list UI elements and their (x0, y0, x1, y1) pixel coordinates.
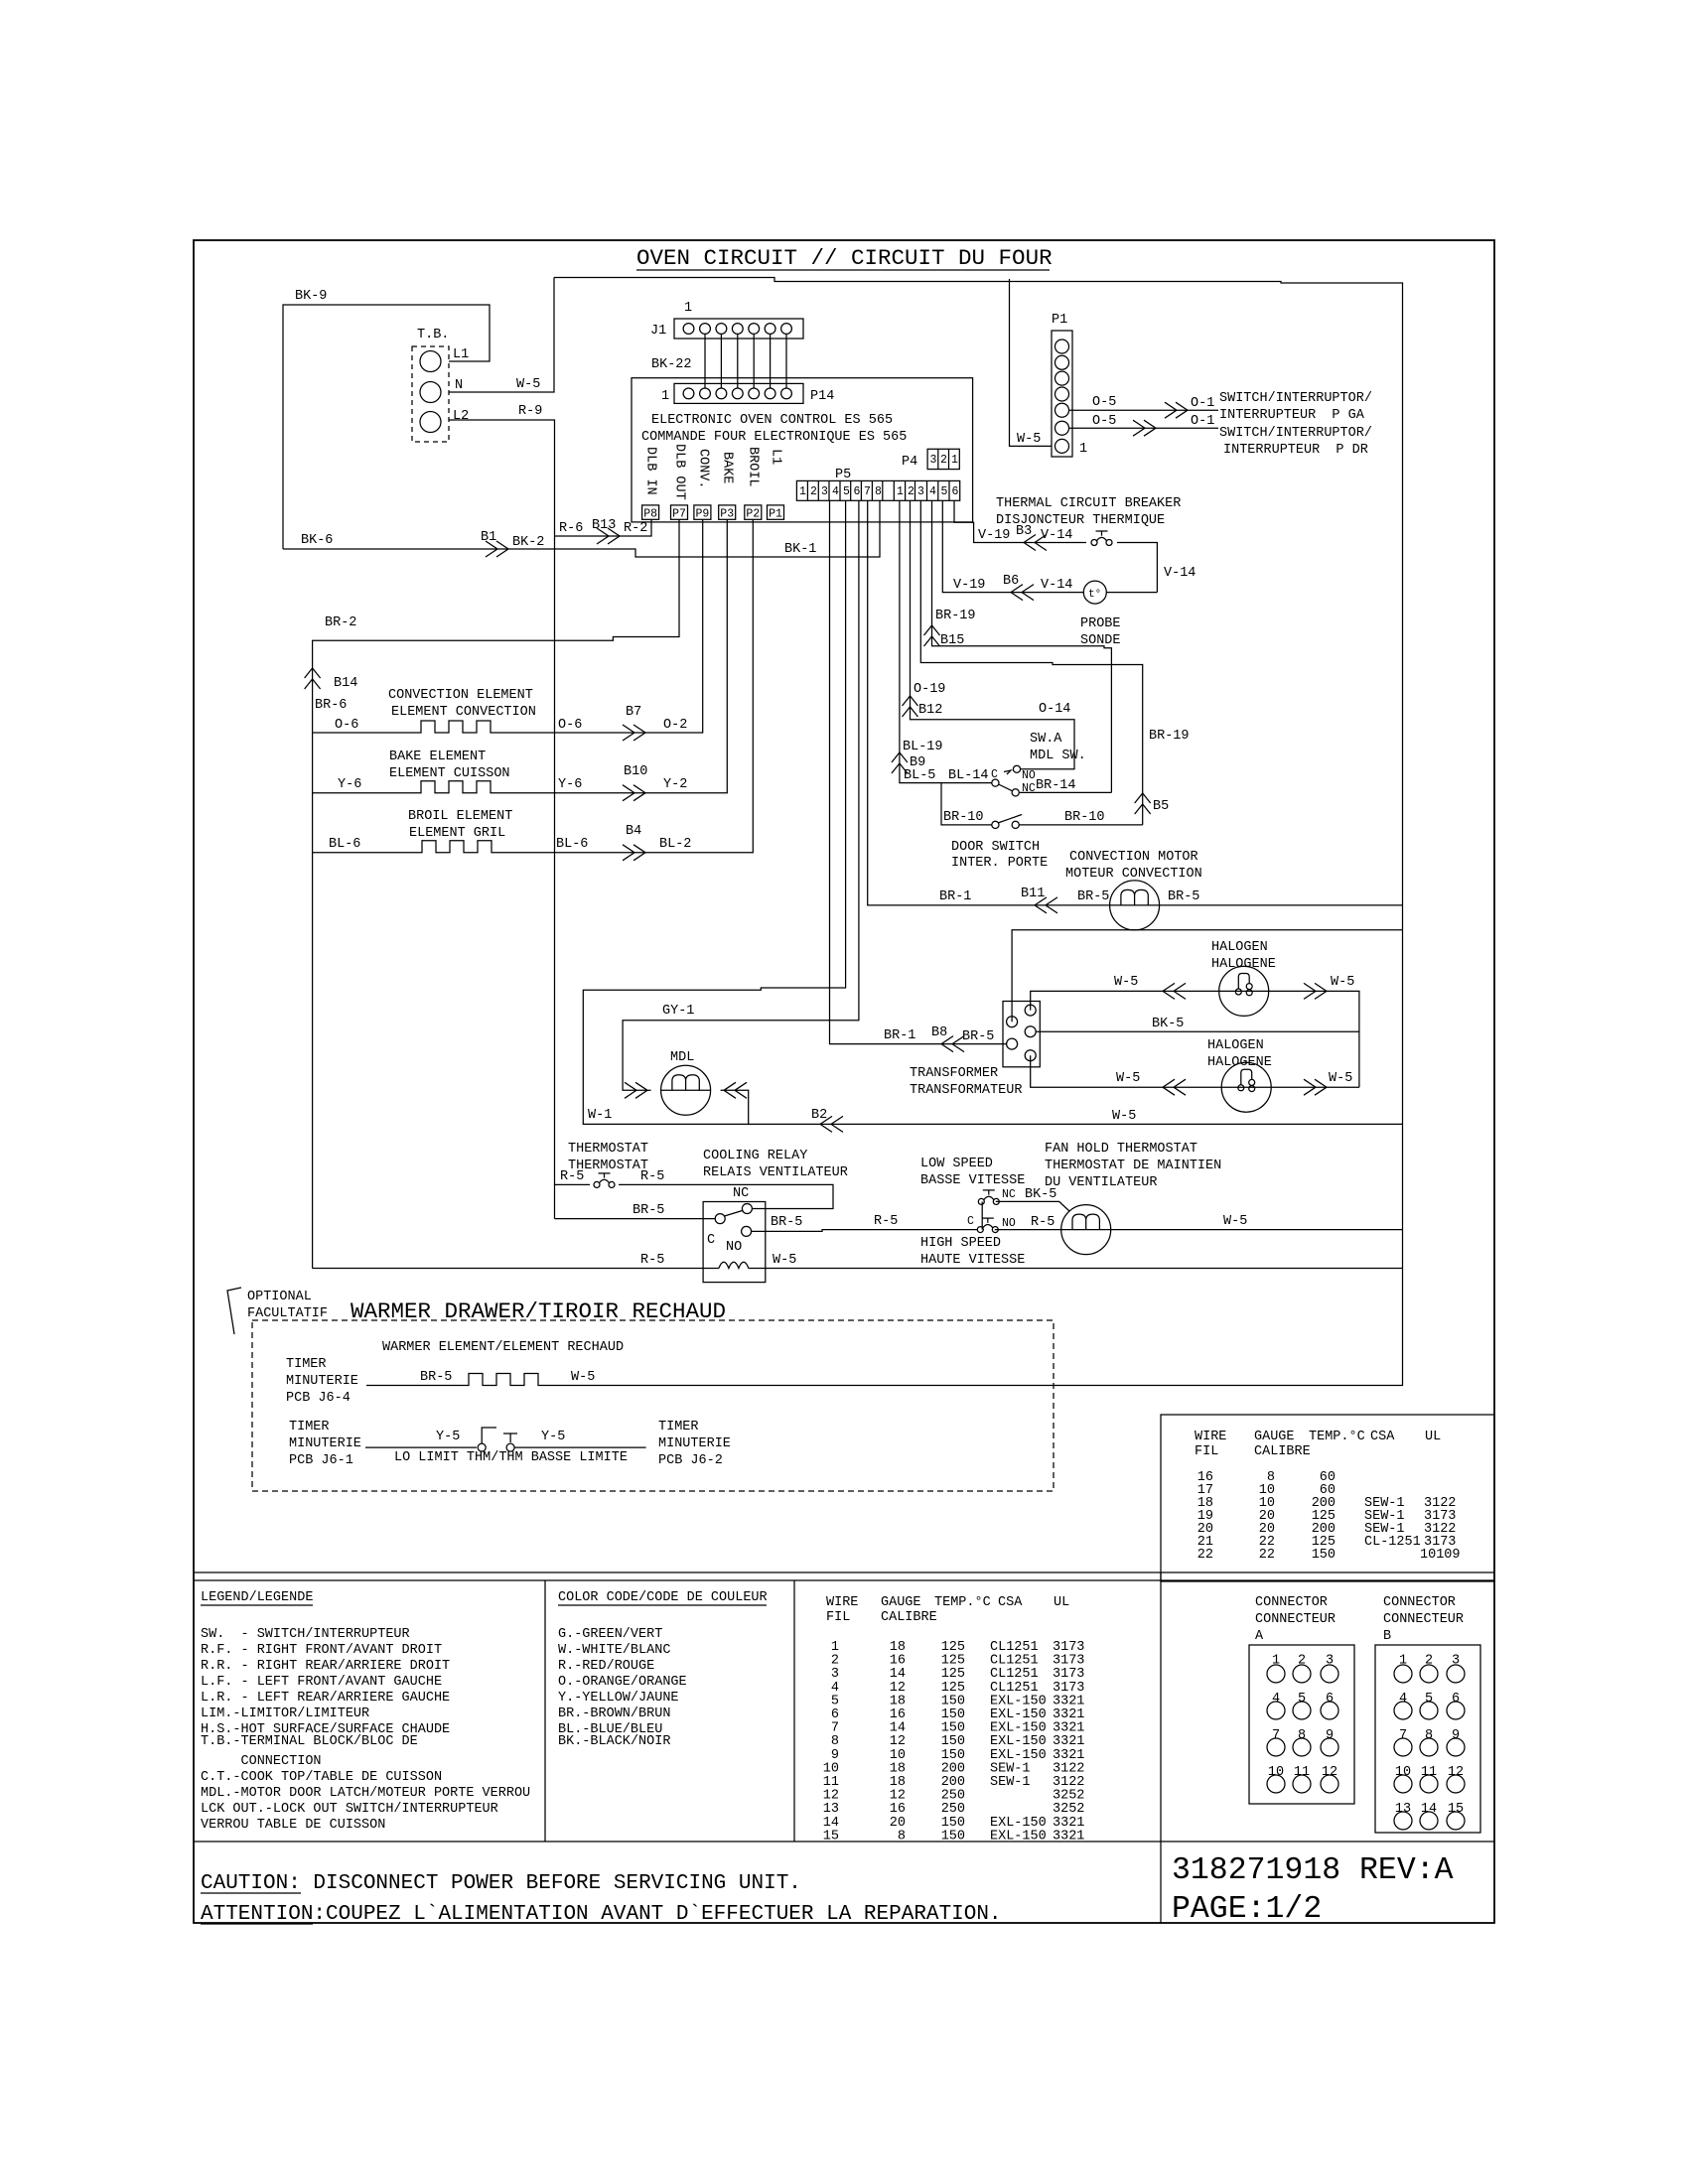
svg-text:NC: NC (733, 1186, 749, 1201)
wire BK-9 top (283, 305, 490, 549)
svg-text:ELEMENT GRIL: ELEMENT GRIL (409, 826, 505, 841)
svg-text:3: 3 (1452, 1654, 1460, 1669)
svg-text:W-5: W-5 (1017, 432, 1041, 447)
svg-text:P9: P9 (696, 508, 710, 521)
svg-text:4: 4 (1399, 1692, 1407, 1706)
svg-text:PROBE: PROBE (1080, 616, 1121, 631)
svg-text:L.F. - LEFT FRONT/AVANT GAUCHE: L.F. - LEFT FRONT/AVANT GAUCHE (201, 1675, 442, 1690)
svg-text:L1: L1 (453, 347, 469, 362)
svg-text:DOOR SWITCH: DOOR SWITCH (951, 840, 1040, 855)
svg-text:2: 2 (1425, 1654, 1433, 1669)
svg-text:8: 8 (890, 1829, 906, 1843)
svg-text:FACULTATIF: FACULTATIF (247, 1306, 328, 1321)
svg-text:BR-6: BR-6 (315, 698, 347, 713)
svg-text:W-5: W-5 (571, 1370, 595, 1385)
svg-text:GAUGE: GAUGE (881, 1595, 921, 1610)
svg-text:DLB OUT: DLB OUT (672, 444, 687, 500)
svg-text:INTERRUPTEUR P DR: INTERRUPTEUR P DR (1223, 443, 1368, 458)
probe circle (1083, 581, 1106, 604)
connector A pins (1268, 1654, 1337, 1780)
svg-text:O-6: O-6 (335, 718, 358, 733)
svg-text:6: 6 (1452, 1692, 1460, 1706)
svg-text:7: 7 (1399, 1728, 1407, 1743)
svg-text:7: 7 (864, 485, 871, 498)
wire O-5/O-1 switch P GA (1069, 409, 1219, 411)
svg-text:B12: B12 (918, 703, 942, 718)
svg-text:CONV.: CONV. (696, 449, 711, 489)
page border frame (194, 240, 1494, 1923)
svg-text:10109: 10109 (1420, 1548, 1461, 1563)
svg-text:THERMOSTAT: THERMOSTAT (568, 1142, 648, 1157)
svg-text:NO: NO (1022, 769, 1036, 782)
svg-text:BR-14: BR-14 (1036, 778, 1076, 793)
svg-text:R-5: R-5 (640, 1253, 664, 1268)
svg-text:CALIBRE: CALIBRE (881, 1610, 937, 1625)
wire R-9 from L2 (449, 420, 555, 1219)
svg-text:TEMP.°C: TEMP.°C (934, 1595, 991, 1610)
svg-text:3321: 3321 (1053, 1829, 1084, 1843)
svg-text:BR-5: BR-5 (1077, 889, 1109, 904)
svg-text:5: 5 (843, 485, 850, 498)
wire W-5 from N (449, 278, 554, 393)
svg-text:THERMAL CIRCUIT BREAKER: THERMAL CIRCUIT BREAKER (996, 496, 1181, 511)
wire GY-1 from P5-6L (623, 500, 859, 1090)
svg-text:PCB J6-2: PCB J6-2 (658, 1453, 723, 1468)
svg-text:HAUTE VITESSE: HAUTE VITESSE (920, 1253, 1025, 1268)
connector B label (1383, 1595, 1464, 1644)
svg-text:MDL.-MOTOR DOOR LATCH/MOTEUR P: MDL.-MOTOR DOOR LATCH/MOTEUR PORTE VERRO… (201, 1786, 530, 1801)
svg-text:BR-5: BR-5 (771, 1215, 802, 1230)
svg-text:PCB J6-1: PCB J6-1 (289, 1453, 353, 1468)
svg-text:BL-2: BL-2 (659, 837, 691, 852)
svg-text:L.R. - LEFT REAR/ARRIERE GAUCH: L.R. - LEFT REAR/ARRIERE GAUCHE (201, 1691, 450, 1706)
wire BR-14 from NC (1019, 791, 1111, 793)
svg-text:BR-1: BR-1 (884, 1028, 915, 1043)
svg-text:BASSE VITESSE: BASSE VITESSE (920, 1173, 1025, 1188)
wire to transformer top (1012, 930, 1402, 1022)
upper wire gauge table box (1161, 1415, 1494, 1581)
wire V-19/V-14 breaker row from P5-6R (954, 500, 1086, 542)
svg-text:1: 1 (684, 301, 692, 316)
svg-text:R.R. - RIGHT REAR/ARRIERE DROI: R.R. - RIGHT REAR/ARRIERE DROIT (201, 1659, 450, 1674)
svg-text:BR-2: BR-2 (325, 615, 356, 630)
svg-text:TRANSFORMER: TRANSFORMER (910, 1066, 998, 1081)
svg-text:SW. - SWITCH/INTERRUPTEUR: SW. - SWITCH/INTERRUPTEUR (201, 1627, 410, 1642)
svg-text:BL-14: BL-14 (948, 768, 989, 783)
svg-text:P1: P1 (1052, 313, 1067, 328)
svg-text:3: 3 (930, 454, 937, 467)
wire BR-1/B8/BR-5 to transformer (830, 500, 1007, 1043)
svg-text:1: 1 (1399, 1654, 1407, 1669)
svg-text:DLB IN: DLB IN (643, 447, 658, 495)
svg-text:2: 2 (1298, 1654, 1306, 1669)
wire BL-19 / B9 / BL-5 from P5-1R to SW.A C (900, 500, 992, 782)
svg-text:W-5: W-5 (1331, 975, 1354, 990)
svg-text:V-19: V-19 (978, 528, 1010, 543)
low speed NC contact (978, 1190, 999, 1205)
svg-text:MDL: MDL (670, 1050, 694, 1065)
pin box P3 (719, 505, 736, 519)
color / wiretable divider (793, 1580, 795, 1842)
svg-text:6: 6 (854, 485, 861, 498)
wiretable / connector divider (1160, 1572, 1162, 1923)
svg-text:Y-6: Y-6 (558, 777, 582, 792)
svg-text:2: 2 (908, 485, 914, 498)
svg-text:P3: P3 (720, 508, 734, 521)
svg-text:BR-5: BR-5 (420, 1370, 452, 1385)
svg-text:BK-6: BK-6 (301, 533, 333, 548)
svg-text:O.-ORANGE/ORANGE: O.-ORANGE/ORANGE (558, 1675, 687, 1690)
connector B pins (1395, 1654, 1464, 1817)
svg-text:T.B.-TERMINAL BLOCK/BLOC DE: T.B.-TERMINAL BLOCK/BLOC DE (201, 1734, 418, 1749)
svg-text:CONVECTION ELEMENT: CONVECTION ELEMENT (388, 688, 533, 703)
svg-text:LOW SPEED: LOW SPEED (920, 1157, 993, 1171)
svg-text:L2: L2 (453, 409, 469, 424)
svg-text:150: 150 (1312, 1548, 1336, 1563)
svg-text:ELECTRONIC OVEN CONTROL ES 565: ELECTRONIC OVEN CONTROL ES 565 (651, 413, 893, 428)
svg-text:NO: NO (726, 1240, 742, 1255)
svg-text:150: 150 (941, 1829, 965, 1843)
svg-text:FAN HOLD THERMOSTAT: FAN HOLD THERMOSTAT (1045, 1142, 1197, 1157)
svg-text:CONNECTEUR: CONNECTEUR (1383, 1612, 1464, 1627)
terminal block T.B. (412, 346, 449, 442)
svg-text:MOTEUR CONVECTION: MOTEUR CONVECTION (1065, 867, 1202, 882)
svg-text:COOLING RELAY: COOLING RELAY (703, 1149, 807, 1163)
svg-text:BR.-BROWN/BRUN: BR.-BROWN/BRUN (558, 1706, 670, 1721)
svg-text:W-5: W-5 (773, 1253, 796, 1268)
svg-text:2: 2 (810, 485, 817, 498)
svg-text:B8: B8 (931, 1025, 947, 1040)
svg-text:6: 6 (1326, 1692, 1334, 1706)
svg-text:9: 9 (1452, 1728, 1460, 1743)
svg-text:W-1: W-1 (588, 1108, 612, 1123)
wire W-5 to P1 (1010, 279, 1053, 446)
svg-text:3: 3 (1326, 1654, 1334, 1669)
svg-text:A: A (1255, 1629, 1264, 1644)
svg-text:BR-10: BR-10 (943, 810, 984, 825)
svg-text:1: 1 (1079, 442, 1087, 457)
svg-text:R-5: R-5 (874, 1214, 898, 1229)
wire BR-19 / B5 from P5-3R to door switch (920, 500, 1142, 825)
svg-text:GY-1: GY-1 (662, 1004, 694, 1019)
svg-text:NC: NC (1022, 782, 1036, 795)
svg-text:W-5: W-5 (516, 377, 540, 392)
svg-text:8: 8 (1425, 1728, 1433, 1743)
svg-text:HALOGEN: HALOGEN (1207, 1038, 1264, 1053)
svg-text:BK-9: BK-9 (295, 289, 327, 304)
svg-text:B11: B11 (1021, 887, 1045, 901)
wire R-5 coil row (bottom) (313, 1268, 719, 1270)
svg-text:BK-2: BK-2 (512, 535, 544, 550)
svg-text:B3: B3 (1016, 524, 1032, 539)
svg-text:15: 15 (823, 1829, 839, 1843)
svg-text:O-5: O-5 (1092, 395, 1116, 410)
svg-text:1: 1 (951, 454, 958, 467)
svg-text:Y-2: Y-2 (663, 777, 687, 792)
svg-text:SWITCH/INTERRUPTOR/: SWITCH/INTERRUPTOR/ (1219, 426, 1372, 441)
svg-text:C: C (967, 1215, 974, 1228)
svg-text:MDL SW.: MDL SW. (1030, 749, 1086, 763)
svg-text:B: B (1383, 1629, 1391, 1644)
svg-text:J1: J1 (650, 324, 666, 339)
svg-text:BK-5: BK-5 (1025, 1187, 1056, 1202)
svg-text:TIMER: TIMER (289, 1420, 330, 1434)
svg-text:WIRE: WIRE (1195, 1430, 1226, 1444)
svg-text:MINUTERIE: MINUTERIE (286, 1374, 358, 1389)
svg-text:B7: B7 (626, 705, 641, 720)
svg-text:R-5: R-5 (1031, 1215, 1055, 1230)
wire BR-19 / B15 from P5-4R to SW.A NC (932, 500, 1112, 792)
svg-text:B4: B4 (626, 824, 641, 839)
svg-text:B10: B10 (624, 764, 647, 779)
svg-text:SEW-1: SEW-1 (990, 1775, 1031, 1790)
svg-text:HIGH SPEED: HIGH SPEED (920, 1236, 1001, 1251)
svg-text:R-2: R-2 (624, 521, 647, 536)
pin box P2 (745, 505, 762, 519)
svg-text:V-14: V-14 (1041, 528, 1072, 543)
wire BK-6 / BK-2 / BK-1 (283, 500, 880, 557)
svg-text:V-14: V-14 (1041, 578, 1072, 593)
svg-text:COLOR CODE/CODE DE COULEUR: COLOR CODE/CODE DE COULEUR (558, 1590, 768, 1605)
svg-text:R-5: R-5 (640, 1169, 664, 1184)
svg-text:V-14: V-14 (1164, 566, 1196, 581)
svg-text:OVEN CIRCUIT // CIRCUIT DU FOU: OVEN CIRCUIT // CIRCUIT DU FOUR (636, 245, 1053, 271)
svg-text:BROIL ELEMENT: BROIL ELEMENT (408, 809, 512, 824)
svg-text:PCB J6-4: PCB J6-4 (286, 1391, 351, 1406)
svg-text:LO LIMIT THM/THM BASSE LIMITE: LO LIMIT THM/THM BASSE LIMITE (394, 1450, 628, 1465)
connector B box (1375, 1645, 1480, 1833)
wire BK-5 (1036, 1030, 1359, 1032)
pin box P1 (768, 505, 784, 519)
svg-text:CALIBRE: CALIBRE (1254, 1444, 1311, 1459)
svg-text:4: 4 (1272, 1692, 1280, 1706)
svg-text:TRANSFORMATEUR: TRANSFORMATEUR (910, 1083, 1022, 1098)
svg-text:VERROU TABLE DE CUISSON: VERROU TABLE DE CUISSON (201, 1818, 385, 1833)
svg-text:CSA: CSA (998, 1595, 1023, 1610)
wires J1 to P14 (705, 334, 786, 388)
main top wire (big loop) (554, 278, 1403, 1387)
svg-text:9: 9 (1326, 1728, 1334, 1743)
svg-text:4: 4 (929, 485, 936, 498)
svg-text:PAGE:1/2: PAGE:1/2 (1172, 1892, 1322, 1927)
svg-text:BL-6: BL-6 (329, 837, 360, 852)
svg-text:P8: P8 (643, 508, 657, 521)
wire V-19/B6/V-14 probe row to P5-5R (1106, 592, 1157, 594)
svg-text:DU VENTILATEUR: DU VENTILATEUR (1045, 1175, 1157, 1190)
wire O-5/O-1 switch P DR (1069, 427, 1219, 429)
svg-text:UL: UL (1425, 1430, 1441, 1444)
svg-text:LCK OUT.-LOCK OUT SWITCH/INTER: LCK OUT.-LOCK OUT SWITCH/INTERRUPTEUR (201, 1802, 498, 1817)
svg-text:1: 1 (799, 485, 806, 498)
svg-text:O-6: O-6 (558, 718, 582, 733)
svg-text:FIL: FIL (1195, 1444, 1218, 1459)
svg-text:O-1: O-1 (1191, 396, 1214, 411)
svg-text:WIRE: WIRE (826, 1595, 858, 1610)
svg-text:22: 22 (1259, 1548, 1275, 1563)
connector J1 (674, 319, 803, 339)
pin box P7 (671, 505, 688, 519)
svg-text:W.-WHITE/BLANC: W.-WHITE/BLANC (558, 1643, 670, 1658)
svg-text:3: 3 (821, 485, 828, 498)
wire W-1 loop from P5-5L (583, 500, 845, 1124)
svg-text:5: 5 (1425, 1692, 1433, 1706)
svg-text:BR-19: BR-19 (1149, 729, 1190, 744)
svg-text:Y-6: Y-6 (338, 777, 361, 792)
svg-text:RELAIS VENTILATEUR: RELAIS VENTILATEUR (703, 1165, 848, 1180)
svg-text:BR-10: BR-10 (1064, 810, 1105, 825)
svg-text:8: 8 (1298, 1728, 1306, 1743)
svg-text:O-1: O-1 (1191, 414, 1214, 429)
svg-text:R-5: R-5 (560, 1169, 584, 1184)
svg-text:R.F. - RIGHT FRONT/AVANT DROIT: R.F. - RIGHT FRONT/AVANT DROIT (201, 1643, 442, 1658)
svg-text:SWITCH/INTERRUPTOR/: SWITCH/INTERRUPTOR/ (1219, 391, 1372, 406)
svg-text:P4: P4 (902, 455, 917, 470)
svg-text:C.T.-COOK TOP/TABLE DE CUISSON: C.T.-COOK TOP/TABLE DE CUISSON (201, 1770, 442, 1785)
svg-text:BROIL: BROIL (746, 447, 761, 487)
bottom section separator lines (194, 1571, 1494, 1573)
svg-text:FIL: FIL (826, 1610, 850, 1625)
svg-text:BR-19: BR-19 (935, 609, 976, 623)
svg-text:CONVECTION MOTOR: CONVECTION MOTOR (1069, 850, 1198, 865)
svg-text:C: C (991, 768, 998, 781)
svg-text:W-5: W-5 (1112, 1109, 1136, 1124)
warmer drawer dashed box (252, 1320, 1054, 1491)
svg-text:C: C (707, 1233, 715, 1248)
svg-text:Y-5: Y-5 (436, 1430, 460, 1444)
svg-text:O-19: O-19 (914, 682, 945, 697)
svg-text:CL-1251: CL-1251 (1364, 1535, 1421, 1550)
svg-text:BL-19: BL-19 (903, 740, 943, 754)
svg-text:1: 1 (1272, 1654, 1280, 1669)
svg-text:W-5: W-5 (1329, 1071, 1352, 1086)
svg-text:G.-GREEN/VERT: G.-GREEN/VERT (558, 1627, 662, 1642)
svg-text:W-5: W-5 (1114, 975, 1138, 990)
svg-text:CONNECTOR: CONNECTOR (1255, 1595, 1328, 1610)
relay contacts (715, 1214, 725, 1224)
svg-text:NO: NO (1002, 1217, 1016, 1230)
svg-text:W-5: W-5 (1223, 1214, 1247, 1229)
optional bracket (227, 1288, 241, 1334)
svg-text:4: 4 (832, 485, 839, 498)
wire B2 / W-5 bottom (749, 1123, 1403, 1125)
svg-text:CAUTION: DISCONNECT POWER BEFO: CAUTION: DISCONNECT POWER BEFORE SERVICI… (201, 1872, 801, 1895)
svg-text:22: 22 (1197, 1548, 1213, 1563)
svg-text:V-19: V-19 (953, 578, 985, 593)
svg-text:N: N (455, 378, 463, 393)
svg-text:MINUTERIE: MINUTERIE (289, 1436, 361, 1451)
svg-text:3: 3 (917, 485, 924, 498)
svg-text:TEMP.°C: TEMP.°C (1309, 1430, 1365, 1444)
svg-text:BR-5: BR-5 (1168, 889, 1199, 904)
svg-text:GAUGE: GAUGE (1254, 1430, 1295, 1444)
svg-text:BL-6: BL-6 (556, 837, 588, 852)
svg-text:COMMANDE FOUR ELECTRONIQUE ES: COMMANDE FOUR ELECTRONIQUE ES 565 (641, 430, 907, 445)
svg-text:UL: UL (1054, 1595, 1069, 1610)
connector A label (1255, 1595, 1336, 1644)
svg-text:BK-22: BK-22 (651, 357, 692, 372)
svg-text:BL-5: BL-5 (904, 768, 935, 783)
svg-text:CSA: CSA (1370, 1430, 1395, 1444)
breaker contacts (1091, 531, 1112, 546)
svg-text:SW.A: SW.A (1030, 732, 1062, 747)
connector A box (1249, 1645, 1354, 1804)
svg-text:P5: P5 (835, 468, 851, 482)
svg-text:6: 6 (952, 485, 959, 498)
svg-text:CONNECTOR: CONNECTOR (1383, 1595, 1456, 1610)
svg-text:MINUTERIE: MINUTERIE (658, 1436, 731, 1451)
svg-text:P2: P2 (746, 508, 760, 521)
svg-text:5: 5 (941, 485, 948, 498)
svg-text:O-2: O-2 (663, 718, 687, 733)
svg-text:B6: B6 (1003, 574, 1019, 589)
svg-text:ELEMENT CUISSON: ELEMENT CUISSON (389, 766, 510, 781)
svg-text:318271918 REV:A: 318271918 REV:A (1172, 1853, 1454, 1888)
svg-text:TIMER: TIMER (286, 1357, 327, 1372)
svg-text:Y-5: Y-5 (541, 1430, 565, 1444)
svg-text:R-9: R-9 (518, 404, 542, 419)
svg-text:1: 1 (897, 485, 904, 498)
svg-text:NC: NC (1002, 1188, 1016, 1201)
transformer T1 (1003, 1002, 1040, 1067)
svg-text:BK.-BLACK/NOIR: BK.-BLACK/NOIR (558, 1734, 670, 1749)
svg-text:CONNECTEUR: CONNECTEUR (1255, 1612, 1336, 1627)
svg-text:R.-RED/ROUGE: R.-RED/ROUGE (558, 1659, 654, 1674)
svg-text:BAKE: BAKE (720, 452, 735, 483)
connector P14 (674, 383, 803, 403)
electronic oven control U1 box (632, 378, 973, 522)
svg-text:2: 2 (940, 454, 947, 467)
wire O-19 / B12 / O-14 from P5-2R to SW.A NO (911, 500, 1075, 769)
wire R-6 / R-2 to P8 (555, 519, 652, 536)
svg-text:HALOGEN: HALOGEN (1211, 940, 1268, 955)
svg-text:8: 8 (875, 485, 882, 498)
wire BR-5 into relay C (555, 1218, 716, 1220)
svg-text:L1: L1 (769, 449, 783, 465)
svg-text:BK-5: BK-5 (1152, 1017, 1184, 1031)
svg-text:WARMER ELEMENT/ELEMENT RECHAUD: WARMER ELEMENT/ELEMENT RECHAUD (382, 1340, 624, 1355)
svg-text:B15: B15 (940, 633, 964, 648)
high speed C contact (981, 1201, 983, 1229)
svg-text:T.B.: T.B. (417, 328, 449, 342)
svg-text:TIMER: TIMER (658, 1420, 699, 1434)
svg-text:P1: P1 (769, 508, 782, 521)
lower wire gauge table (823, 1595, 1085, 1843)
svg-text:P7: P7 (672, 508, 686, 521)
svg-text:O-5: O-5 (1092, 414, 1116, 429)
svg-text:BR-1: BR-1 (939, 889, 971, 904)
svg-text:B5: B5 (1153, 799, 1169, 814)
svg-text:P14: P14 (810, 389, 834, 404)
wire BR-5 from relay NO to fan row (752, 1230, 977, 1232)
svg-text:1: 1 (661, 389, 669, 404)
svg-text:5: 5 (1298, 1692, 1306, 1706)
pin box P9 (694, 505, 711, 519)
svg-text:CONNECTION: CONNECTION (201, 1754, 322, 1769)
svg-text:THERMOSTAT DE MAINTIEN: THERMOSTAT DE MAINTIEN (1045, 1159, 1221, 1173)
svg-text:Y.-YELLOW/JAUNE: Y.-YELLOW/JAUNE (558, 1691, 679, 1706)
svg-text:ELEMENT CONVECTION: ELEMENT CONVECTION (391, 705, 536, 720)
svg-text:7: 7 (1272, 1728, 1280, 1743)
pin box P8 (642, 505, 659, 519)
svg-text:ATTENTION:COUPEZ L`ALIMENTATIO: ATTENTION:COUPEZ L`ALIMENTATION AVANT D`… (201, 1903, 1002, 1926)
svg-text:OPTIONAL: OPTIONAL (247, 1290, 312, 1304)
svg-text:O-14: O-14 (1039, 702, 1070, 717)
svg-text:HALOGENE: HALOGENE (1211, 957, 1276, 972)
svg-text:R-6: R-6 (559, 521, 583, 536)
svg-text:W-5: W-5 (1116, 1071, 1140, 1086)
svg-text:INTER. PORTE: INTER. PORTE (951, 856, 1048, 871)
fan motor M3 (995, 1229, 1403, 1231)
